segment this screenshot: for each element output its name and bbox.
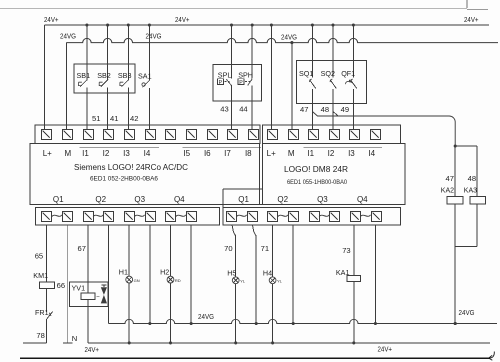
svg-text:YL: YL	[277, 279, 283, 284]
wire SPH feed	[251, 25, 253, 79]
svg-text:I8: I8	[245, 149, 252, 158]
wire QF1 feed	[352, 25, 354, 78]
label 6ED1 055-1HB00-0BA0	[287, 180, 348, 186]
svg-text:I4: I4	[368, 149, 375, 158]
DM8 output labels underline	[224, 203, 263, 205]
wire DM8 Q2b to 24VG	[292, 225, 294, 324]
svg-text:GN: GN	[134, 278, 140, 283]
svg-text:24VG: 24VG	[198, 312, 214, 321]
junction KA return on 24VG	[454, 322, 457, 325]
wire branch tap from SQ2	[333, 112, 338, 117]
svg-text:Q4: Q4	[357, 195, 368, 204]
wire number 49	[341, 105, 349, 114]
svg-text:24VG: 24VG	[281, 33, 297, 42]
wire M feed (24VG to LOGO M)	[65, 43, 67, 130]
svg-text:70: 70	[224, 244, 232, 253]
wire number 48 (KA3)	[468, 174, 476, 183]
svg-text:SQ1: SQ1	[299, 69, 313, 78]
DM8 terminal labels	[267, 149, 376, 158]
wire SQ1 feed	[311, 25, 313, 78]
relay coil KA1	[336, 268, 361, 282]
wire H1 to 24V+	[128, 283, 130, 343]
LOGO! input group underline 1	[79, 146, 159, 148]
svg-text:I3: I3	[348, 149, 355, 158]
wire number 51	[92, 114, 100, 123]
label 24V+ top-right	[464, 15, 479, 24]
junction on bottom 24V+ at x=129	[128, 341, 131, 344]
DM8 input terminals row	[268, 130, 381, 140]
junction on bottom 24VG at x=150	[148, 322, 151, 325]
solenoid valve YV1 box	[70, 282, 109, 307]
breaker QF1	[341, 69, 357, 89]
svg-text:SB2: SB2	[97, 71, 111, 80]
junction on 24V+ at x=108	[106, 23, 109, 26]
label 24V+ top-middle	[175, 15, 190, 24]
LOGO! input terminals row	[42, 130, 259, 140]
svg-text:I2: I2	[328, 149, 335, 158]
svg-text:66: 66	[57, 281, 65, 290]
junction on bottom 24V+ at x=170	[169, 341, 172, 344]
pressure switch SPL	[217, 71, 231, 86]
DM8 relay contact links	[237, 215, 371, 217]
svg-text:Q3: Q3	[134, 195, 145, 204]
box SB1-SB3 group	[74, 64, 135, 93]
junction on bottom 24VG at x=375	[374, 322, 377, 325]
svg-text:KA3: KA3	[464, 188, 477, 195]
wire Q4a to H2	[170, 225, 172, 276]
wire SPH to I8	[251, 86, 253, 130]
wire SB1 feed	[86, 25, 88, 81]
junction on bottom 24V+ at x=273	[271, 341, 274, 344]
wire number 47	[300, 105, 308, 114]
svg-text:42: 42	[130, 114, 138, 123]
wire number 70	[224, 244, 232, 253]
wire H5 to 24V+	[235, 284, 237, 343]
svg-text:I7: I7	[224, 149, 231, 158]
junction on bottom 24V+ at x=354	[352, 341, 355, 344]
svg-text:N: N	[72, 334, 77, 343]
label Siemens LOGO! 24RCo AC/DC	[74, 162, 188, 172]
label 24VG bottom-right	[459, 308, 475, 317]
svg-text:Q2: Q2	[95, 195, 106, 204]
svg-text:I3: I3	[123, 149, 130, 158]
DM8 input group underline	[303, 146, 382, 148]
net 24V+ top rail	[44, 24, 489, 26]
svg-text:YL: YL	[240, 279, 246, 284]
wire number 48	[321, 105, 329, 114]
wire DM8 L+ feed	[270, 25, 272, 129]
svg-text:SPH: SPH	[238, 71, 253, 80]
net 24VG top rail	[66, 38, 498, 42]
wire number 47 (KA2)	[446, 174, 454, 183]
wire 71 (DM8 Q2a to H4)	[272, 225, 274, 277]
net 24V+ bottom rail	[88, 342, 490, 344]
label 24VG top-left	[60, 32, 76, 41]
svg-text:I1: I1	[82, 149, 89, 158]
module LOGO! body	[30, 144, 260, 205]
wire KA2/KA3 rejoin	[455, 245, 477, 247]
svg-text:43: 43	[220, 105, 228, 114]
svg-text:47: 47	[446, 174, 454, 183]
svg-text:24V+: 24V+	[464, 15, 479, 24]
wire KM1 to FR1	[46, 288, 48, 312]
module DM8 terminal strip	[263, 125, 401, 144]
contactor coil KM1	[33, 271, 54, 288]
lamp H5	[227, 268, 246, 283]
push-button SB2	[97, 71, 111, 87]
wire SB2 to I2	[107, 88, 109, 130]
label 6ED1 052-2HB00-0BA6	[90, 176, 159, 182]
wire KA2 branch	[454, 146, 456, 196]
svg-text:Siemens LOGO! 24RCo AC/DC: Siemens LOGO! 24RCo AC/DC	[74, 162, 188, 172]
junction on 24V+ at x=232	[230, 23, 233, 26]
junction on bottom 24VG at x=191	[190, 322, 193, 325]
svg-text:51: 51	[92, 114, 100, 123]
junction on bottom 24V+ at x=236	[234, 341, 237, 344]
terminal N	[63, 334, 77, 343]
svg-text:24VG: 24VG	[60, 32, 76, 41]
svg-text:FR1: FR1	[35, 308, 49, 317]
wire SB3 feed	[127, 25, 129, 81]
svg-text:SB1: SB1	[77, 71, 91, 80]
LOGO! output terminals row	[42, 212, 197, 222]
wire KA3 below coil	[476, 204, 478, 246]
relay coil KA2	[441, 188, 463, 204]
wire Q4b to 24VG	[190, 225, 192, 324]
svg-text:6ED1 052-2HB00-0BA6: 6ED1 052-2HB00-0BA6	[90, 176, 159, 182]
label 24V+ bottom-middle	[378, 344, 393, 353]
wire YV1 to 24V+ rail	[87, 300, 89, 343]
wire SPL to I7	[231, 86, 233, 130]
label LOGO! DM8 24R	[284, 164, 348, 174]
wire Q2b to 24VG rail	[108, 225, 110, 324]
svg-text:24VG: 24VG	[146, 32, 162, 41]
limit switch SQ1	[299, 69, 316, 89]
wire number 43	[220, 105, 228, 114]
wire DM8 Q1b to 24VG	[252, 225, 256, 324]
wire SPL feed	[231, 25, 233, 79]
junction on 24V+ at x=252	[251, 23, 254, 26]
junction on 24V+ at x=149	[148, 23, 151, 26]
wire split to KA3 branch	[455, 146, 477, 196]
junction on 24V+ at x=128	[127, 23, 130, 26]
svg-text:RD: RD	[175, 278, 181, 283]
svg-text:L+: L+	[267, 149, 276, 158]
wire H4 to 24V+	[272, 284, 274, 343]
label 24VG bottom-middle	[198, 312, 214, 321]
wire QF1 to DM8 I3	[352, 89, 354, 129]
wire SA1 to I4	[148, 88, 150, 129]
wire SQ2 feed	[332, 25, 334, 78]
wire number 67	[78, 244, 86, 253]
junction on bottom 24VG at x=293	[292, 322, 295, 325]
wire number 71	[261, 244, 269, 253]
thermal contact FR1	[35, 308, 53, 319]
box SPL-SPH group	[213, 65, 262, 102]
net 24VG bottom rail	[109, 319, 497, 323]
wire SQ1 to DM8 I1	[311, 89, 313, 129]
wire N (Q1b to neutral)	[66, 225, 68, 343]
svg-text:6ED1 055-1HB00-0BA0: 6ED1 055-1HB00-0BA0	[287, 180, 348, 186]
wire number 41	[110, 114, 118, 123]
svg-text:24V+: 24V+	[44, 15, 59, 24]
svg-text:I2: I2	[103, 149, 110, 158]
svg-text:48: 48	[468, 174, 476, 183]
svg-text:49: 49	[341, 105, 349, 114]
wire 67 (Q2a to YV1)	[87, 225, 89, 293]
limit switch SQ2	[321, 69, 337, 89]
svg-text:47: 47	[300, 105, 308, 114]
label 24VG top-middle	[146, 32, 162, 41]
svg-text:P: P	[219, 80, 223, 86]
svg-text:P: P	[239, 80, 243, 86]
svg-text:YV1: YV1	[72, 284, 86, 293]
wire number 42	[130, 114, 138, 123]
wire KA coils to 24VG	[454, 246, 456, 323]
svg-text:QF1: QF1	[341, 69, 355, 78]
svg-text:L+: L+	[43, 149, 52, 158]
wire number 65	[35, 252, 43, 261]
DM8 output terminals row	[227, 212, 382, 222]
svg-text:Q3: Q3	[317, 195, 328, 204]
svg-text:73: 73	[342, 246, 350, 255]
LOGO! relay contact links	[52, 215, 186, 217]
svg-text:I4: I4	[144, 149, 151, 158]
svg-text:I6: I6	[204, 149, 211, 158]
wire DM8 Q4b to 24VG	[374, 225, 376, 324]
box SQ1-SQ2-QF1 group	[297, 61, 367, 104]
label 24V+ top-left	[44, 15, 59, 24]
wire SB1 to I1	[86, 88, 88, 130]
svg-text:KM1: KM1	[33, 271, 48, 280]
junction on 24V+ at x=312	[311, 23, 314, 26]
svg-text:I5: I5	[183, 149, 190, 158]
svg-text:H5: H5	[227, 268, 236, 277]
wire SB2 feed	[107, 25, 109, 81]
svg-text:24V+: 24V+	[175, 15, 190, 24]
svg-text:H1: H1	[119, 268, 128, 277]
LOGO! terminal labels	[43, 149, 252, 158]
wire number 44	[239, 105, 247, 114]
label 24V+ bottom-left	[85, 345, 100, 354]
LOGO! output block	[35, 207, 219, 225]
svg-text:24VG: 24VG	[459, 308, 475, 317]
node KA2/KA3 split	[454, 144, 457, 147]
wire Q3b to 24VG	[149, 225, 151, 324]
svg-text:H2: H2	[160, 268, 169, 277]
solenoid valve YV1	[72, 284, 108, 304]
junction on 24V+ at x=271	[270, 23, 273, 26]
svg-text:78: 78	[36, 331, 44, 340]
wire 78 to supply	[23, 319, 47, 343]
svg-text:44: 44	[239, 105, 247, 114]
wire number 78	[36, 331, 44, 340]
svg-text:Q1: Q1	[238, 195, 249, 204]
wire number 73	[342, 246, 350, 255]
svg-text:Q2: Q2	[277, 195, 288, 204]
svg-text:65: 65	[35, 252, 43, 261]
lamp H2	[160, 268, 181, 284]
svg-text:SPL: SPL	[218, 71, 232, 80]
svg-text:SQ2: SQ2	[321, 69, 335, 78]
svg-text:67: 67	[78, 244, 86, 253]
svg-text:SA1: SA1	[138, 72, 152, 81]
label 24VG top-right	[281, 33, 297, 42]
svg-text:H4: H4	[263, 268, 272, 277]
LOGO! output labels	[53, 195, 185, 204]
wire 73 (DM8 Q4a to KA1)	[353, 225, 355, 276]
junction on bottom 24VG at x=256	[255, 322, 258, 325]
svg-text:71: 71	[261, 244, 269, 253]
wire Q3a to H1	[128, 225, 130, 276]
push-button SB3	[118, 71, 132, 87]
push-button SB1	[77, 71, 91, 87]
wire branch to KA2/KA3	[312, 112, 455, 147]
wire number 66	[57, 281, 65, 290]
svg-text:KA2: KA2	[441, 188, 454, 195]
lamp H4	[263, 268, 283, 283]
wire KA1 to 24V+	[353, 282, 355, 343]
wire H2 to 24V+	[170, 283, 172, 343]
svg-text:I1: I1	[307, 149, 314, 158]
wire L+ feed (24V+ to LOGO L+)	[43, 25, 45, 129]
LOGO! input group underline 2	[183, 146, 261, 148]
svg-text:41: 41	[110, 114, 118, 123]
wire DM8 M feed	[291, 43, 293, 130]
junction on 24V+ at x=333	[331, 23, 334, 26]
junction on 24V+ at x=353	[352, 23, 355, 26]
relay coil KA3	[464, 188, 486, 204]
junction on 24VG rail (DM8 M wire)	[290, 41, 293, 44]
svg-text:24V+: 24V+	[85, 345, 100, 354]
selector switch SA1	[138, 72, 152, 88]
wire 65 (Q1a to KM1)	[46, 225, 48, 282]
pressure switch SPH	[238, 71, 253, 86]
svg-text:48: 48	[321, 105, 329, 114]
svg-text:Q4: Q4	[174, 195, 185, 204]
junction on 24V+ at x=87	[85, 23, 88, 26]
svg-text:24V+: 24V+	[378, 344, 393, 353]
wire SB3 to I3	[127, 88, 129, 130]
lamp H1	[119, 268, 140, 284]
module DM8 body	[263, 144, 406, 205]
module LOGO! terminal strip	[35, 125, 260, 144]
svg-text:M: M	[288, 149, 295, 158]
DM8 outline step	[223, 189, 263, 207]
svg-text:LOGO! DM8 24R: LOGO! DM8 24R	[284, 164, 348, 174]
wire SA1 feed	[148, 25, 150, 81]
DM8 output block	[223, 207, 401, 225]
svg-text:Q1: Q1	[53, 195, 64, 204]
wire KA2 below coil	[454, 204, 456, 246]
wire 70 (DM8 Q1a to H5)	[232, 225, 236, 277]
svg-text:M: M	[64, 149, 71, 158]
wire SQ2 to DM8 I2	[332, 89, 334, 129]
svg-text:SB3: SB3	[118, 71, 132, 80]
DM8 output labels	[238, 195, 368, 204]
junction on bottom 24VG at x=455	[454, 322, 457, 325]
